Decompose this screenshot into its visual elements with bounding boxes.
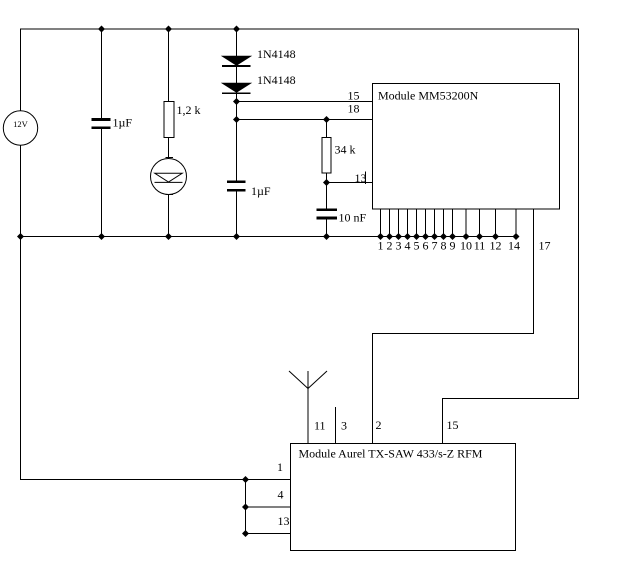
LED D3 cathode bar bbox=[155, 181, 183, 183]
node bus C3 bbox=[323, 233, 330, 240]
wire diode branch to C2 bbox=[236, 94, 238, 181]
wire to IC pin 15 bbox=[237, 101, 373, 103]
wire to IC pin 18 bbox=[237, 119, 373, 121]
node bus LED bbox=[165, 233, 172, 240]
wire pin 6 bbox=[425, 209, 427, 237]
wire to TX pin 13 bbox=[246, 533, 291, 535]
wire to TX pin 2 bbox=[372, 333, 374, 443]
svg-text:2: 2 bbox=[376, 418, 382, 432]
node bus pin11 bbox=[476, 233, 483, 240]
node bus pin12 bbox=[492, 233, 499, 240]
node bus pin7 bbox=[431, 233, 438, 240]
node bus pin6 bbox=[422, 233, 429, 240]
IC U1 bottom pin stubs bbox=[381, 209, 517, 237]
svg-text:14: 14 bbox=[508, 239, 520, 253]
wire C1 branch lower bbox=[101, 129, 103, 237]
node bus C1 bbox=[98, 233, 105, 240]
node top diodes bbox=[233, 26, 240, 33]
svg-text:18: 18 bbox=[348, 102, 360, 116]
wire pin 5 bbox=[416, 209, 418, 237]
svg-text:1µF: 1µF bbox=[113, 116, 133, 130]
wire R1 to LED bbox=[168, 137, 170, 159]
svg-text:10: 10 bbox=[460, 239, 472, 253]
wire C3 to bus bbox=[326, 219, 328, 237]
wire R2 to node bbox=[326, 173, 328, 210]
node bus C2 bbox=[233, 233, 240, 240]
node top R1 bbox=[165, 26, 172, 33]
svg-text:15: 15 bbox=[348, 89, 360, 103]
node bus pin10 bbox=[463, 233, 470, 240]
node bus pin2 bbox=[386, 233, 393, 240]
node bus pin14 bbox=[513, 233, 520, 240]
node bus pin8 bbox=[440, 233, 447, 240]
wire pin 17 horizontal bbox=[373, 333, 535, 335]
node bus pin5 bbox=[413, 233, 420, 240]
wire between diodes bbox=[236, 67, 238, 84]
IC U1 Module MM53200N box bbox=[373, 84, 560, 210]
LED D3 triangle bbox=[155, 173, 182, 182]
wire TX pin 15 drop bbox=[442, 398, 444, 443]
wire right rail to TX pin 15 bbox=[443, 398, 580, 400]
wire LED to bus bbox=[168, 195, 170, 238]
svg-text:3: 3 bbox=[341, 419, 347, 433]
wire top rail bbox=[20, 28, 579, 30]
capacitor C3 plate bottom bbox=[317, 217, 338, 220]
wire pin 9 bbox=[452, 209, 454, 237]
svg-text:4: 4 bbox=[405, 239, 411, 253]
pin number labels 1-14 bbox=[378, 239, 521, 253]
svg-text:3: 3 bbox=[396, 239, 402, 253]
wire IC pin 17 drop bbox=[533, 209, 535, 334]
diode D2 cathode bar bbox=[222, 92, 251, 94]
wire diode branch top bbox=[236, 29, 238, 57]
svg-text:1N4148: 1N4148 bbox=[257, 73, 296, 87]
svg-text:4: 4 bbox=[278, 488, 284, 502]
svg-text:9: 9 bbox=[450, 239, 456, 253]
svg-text:1,2 k: 1,2 k bbox=[177, 103, 201, 117]
svg-text:8: 8 bbox=[441, 239, 447, 253]
svg-text:10 nF: 10 nF bbox=[339, 211, 367, 225]
node R2 pin13 bbox=[323, 179, 330, 186]
node bus left corner bbox=[17, 233, 24, 240]
wire to IC pin 13 bbox=[327, 182, 373, 184]
svg-text:1µF: 1µF bbox=[251, 184, 271, 198]
wire left rail below source bbox=[20, 145, 22, 237]
node bus pin3 bbox=[395, 233, 402, 240]
node bus pin9 bbox=[449, 233, 456, 240]
capacitor C1 plate top bbox=[92, 118, 111, 121]
wire left rail lower bbox=[20, 236, 22, 480]
wire to TX pin 4 bbox=[246, 506, 291, 508]
svg-text:34 k: 34 k bbox=[335, 143, 356, 157]
svg-text:Module Aurel TX-SAW 433/s-Z RF: Module Aurel TX-SAW 433/s-Z RFM bbox=[299, 447, 483, 461]
wire pin 14 bbox=[515, 209, 517, 237]
wire C2 to bus bbox=[236, 192, 238, 237]
wire pin 2 bbox=[389, 209, 391, 237]
wire pin 12 bbox=[495, 209, 497, 237]
node R2 top bbox=[323, 116, 330, 123]
svg-text:1: 1 bbox=[378, 239, 384, 253]
node bus pin4 bbox=[404, 233, 411, 240]
wire R1 branch upper bbox=[168, 29, 170, 102]
wire left rail top bbox=[20, 29, 22, 112]
LED D3 circle bbox=[151, 159, 187, 195]
svg-text:17: 17 bbox=[539, 239, 551, 253]
node TX pin1 bbox=[242, 476, 249, 483]
module U2 Aurel TX box bbox=[291, 444, 516, 551]
node TX pin4 bbox=[242, 504, 249, 511]
wire pin 10 bbox=[465, 209, 467, 237]
diode D2 triangle bbox=[223, 83, 251, 92]
node diode pin15 bbox=[233, 98, 240, 105]
wire right rail bbox=[578, 29, 580, 400]
node bus pin1 bbox=[377, 233, 384, 240]
svg-text:11: 11 bbox=[314, 419, 326, 433]
wire TX left bus bbox=[245, 479, 247, 534]
svg-text:6: 6 bbox=[423, 239, 429, 253]
capacitor C3 plate top bbox=[317, 208, 338, 211]
wire pin 1 bbox=[380, 209, 382, 237]
svg-text:13: 13 bbox=[355, 171, 367, 185]
capacitor C2 plate bottom bbox=[227, 189, 246, 191]
resistor R1 body bbox=[164, 101, 174, 137]
svg-text:13: 13 bbox=[278, 514, 290, 528]
LED D3 top tick bbox=[166, 157, 174, 159]
svg-text:2: 2 bbox=[387, 239, 393, 253]
capacitor C2 plate top bbox=[227, 180, 246, 182]
diode D1 cathode bar bbox=[222, 65, 251, 67]
wire R2 branch top bbox=[326, 120, 328, 138]
svg-text:1N4148: 1N4148 bbox=[257, 47, 296, 61]
node top C1 bbox=[98, 26, 105, 33]
node TX pin13 bbox=[242, 530, 249, 537]
node diode pin18 bbox=[233, 116, 240, 123]
antenna stem bbox=[307, 371, 309, 443]
svg-text:12: 12 bbox=[490, 239, 502, 253]
wire ground bus bbox=[20, 236, 516, 238]
LED D3 bottom tick bbox=[166, 193, 174, 195]
diode D1 triangle bbox=[223, 56, 251, 65]
wire pin 4 bbox=[407, 209, 409, 237]
antenna left arm bbox=[289, 371, 308, 389]
svg-text:Module MM53200N: Module MM53200N bbox=[378, 89, 479, 103]
svg-text:5: 5 bbox=[414, 239, 420, 253]
wire to TX pin 1 bbox=[20, 479, 290, 481]
wire pin 8 bbox=[443, 209, 445, 237]
antenna right arm bbox=[308, 371, 327, 389]
svg-text:7: 7 bbox=[432, 239, 438, 253]
svg-text:1: 1 bbox=[277, 460, 283, 474]
pin 13 tick mark bbox=[365, 172, 367, 185]
resistor R2 body bbox=[322, 138, 331, 174]
capacitor C1 plate bottom bbox=[92, 126, 111, 129]
wire pin 11 bbox=[479, 209, 481, 237]
svg-text:11: 11 bbox=[474, 239, 486, 253]
wire TX pin 3 stub bbox=[335, 407, 337, 443]
svg-text:12V: 12V bbox=[13, 119, 29, 129]
wire pin 7 bbox=[434, 209, 436, 237]
svg-text:15: 15 bbox=[447, 418, 459, 432]
wire C1 branch upper bbox=[101, 29, 103, 119]
wire pin 3 bbox=[398, 209, 400, 237]
source V1 12V circle bbox=[3, 111, 37, 145]
